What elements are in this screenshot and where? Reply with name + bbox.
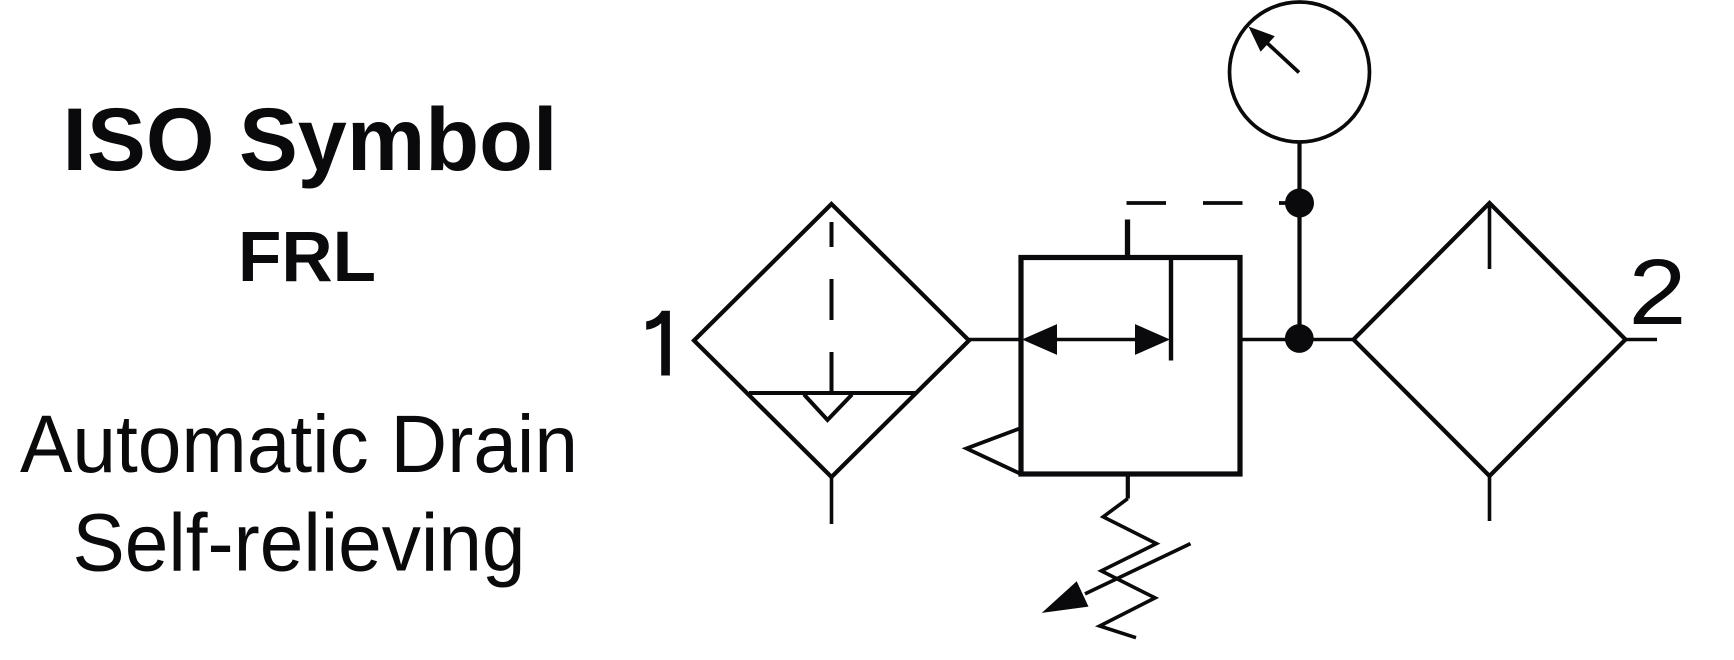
regulator R1 relief vent triangle <box>967 428 1022 474</box>
svg-text:FRL: FRL <box>238 218 376 297</box>
filter F1 element (dashed centerline) <box>830 222 834 391</box>
regulator R1 flow arrow shaft <box>1054 338 1137 342</box>
gauge G1 needle arrowhead <box>1249 27 1275 52</box>
regulator R1 pilot stub <box>1125 220 1130 259</box>
regulator R1 flow arrowhead left <box>1022 324 1057 355</box>
gauge G1 needle <box>1265 41 1299 73</box>
wire: filter outlet to regulator inlet <box>967 338 1021 342</box>
lubricator L1 body (diamond) <box>1354 203 1626 476</box>
pressure gauge G1 dial <box>1230 2 1370 142</box>
port label 1 (drawn glyph, helvetica style) <box>646 311 670 376</box>
svg-text:2: 2 <box>1629 240 1687 344</box>
wire: lubricator outlet to port 2 <box>1626 338 1658 342</box>
filter F1 drain outlet stub <box>830 477 834 524</box>
filter F1 sump line <box>749 391 917 395</box>
lubricator L1 bottom stub <box>1488 476 1492 521</box>
svg-text:ISO Symbol: ISO Symbol <box>63 89 558 189</box>
filter F1 automatic drain (V) <box>804 395 852 421</box>
lubricator L1 drip stub <box>1488 204 1492 269</box>
regulator R1 adjustability arrow shaft <box>1085 544 1191 594</box>
regulator R1 spring stub <box>1126 474 1130 499</box>
regulator R1 inner partition line <box>1169 258 1173 361</box>
regulator R1 adjustability arrowhead <box>1042 581 1089 613</box>
regulator R1 adjustment spring (zigzag) <box>1100 499 1157 638</box>
filter F1 body (diamond) <box>694 204 969 477</box>
wire: regulator outlet through J2 to lubricator <box>1240 338 1353 342</box>
wire: gauge drop line <box>1297 142 1301 340</box>
svg-text:Automatic Drain: Automatic Drain <box>20 399 578 490</box>
svg-text:Self-relieving: Self-relieving <box>73 498 526 589</box>
pilot line (dashed) to gauge node <box>1127 201 1287 205</box>
regulator R1 flow arrowhead right <box>1135 324 1170 355</box>
regulator R1 body (square) <box>1021 258 1240 475</box>
junction node J2 (main line) <box>1285 324 1314 353</box>
junction node J1 (pilot/gauge) <box>1285 189 1314 218</box>
